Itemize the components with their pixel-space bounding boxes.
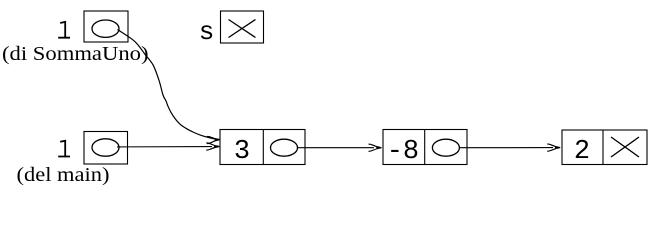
pointer blob in box l (del main) [92,139,119,156]
pointer blob in box l (di SommaUno) [92,20,119,37]
null cross in box s [229,20,256,38]
arrow from node 3 to node -8 [298,147,375,149]
curved arrow from l (di SommaUno) to node 3 [118,30,217,140]
node -8 box [383,130,467,165]
label l (di SommaUno) [58,22,70,38]
node 2 box [562,130,647,165]
variable box l (del main) [84,132,128,165]
node 2 null cross [611,137,639,157]
variable box l (di SommaUno) [84,11,128,42]
arrow from node -8 to node 2 [459,147,553,149]
node -8 pointer blob [432,139,459,156]
variable box s [221,11,264,43]
svg-text:(di SommaUno): (di SommaUno) [2,44,149,65]
node 3 box [220,130,305,165]
node 3 pointer blob [271,139,298,156]
label l (del main) [58,141,70,157]
node -8 divider [424,130,426,165]
svg-text:s: s [199,17,215,47]
node 3 divider [262,130,264,165]
svg-text:(del main): (del main) [17,165,110,186]
arrow from l (del main) to node 3 [117,146,212,148]
node 2 divider [602,130,604,165]
svg-text:2: 2 [574,137,590,167]
svg-text:3: 3 [234,137,250,167]
svg-text:-8: -8 [387,137,419,167]
